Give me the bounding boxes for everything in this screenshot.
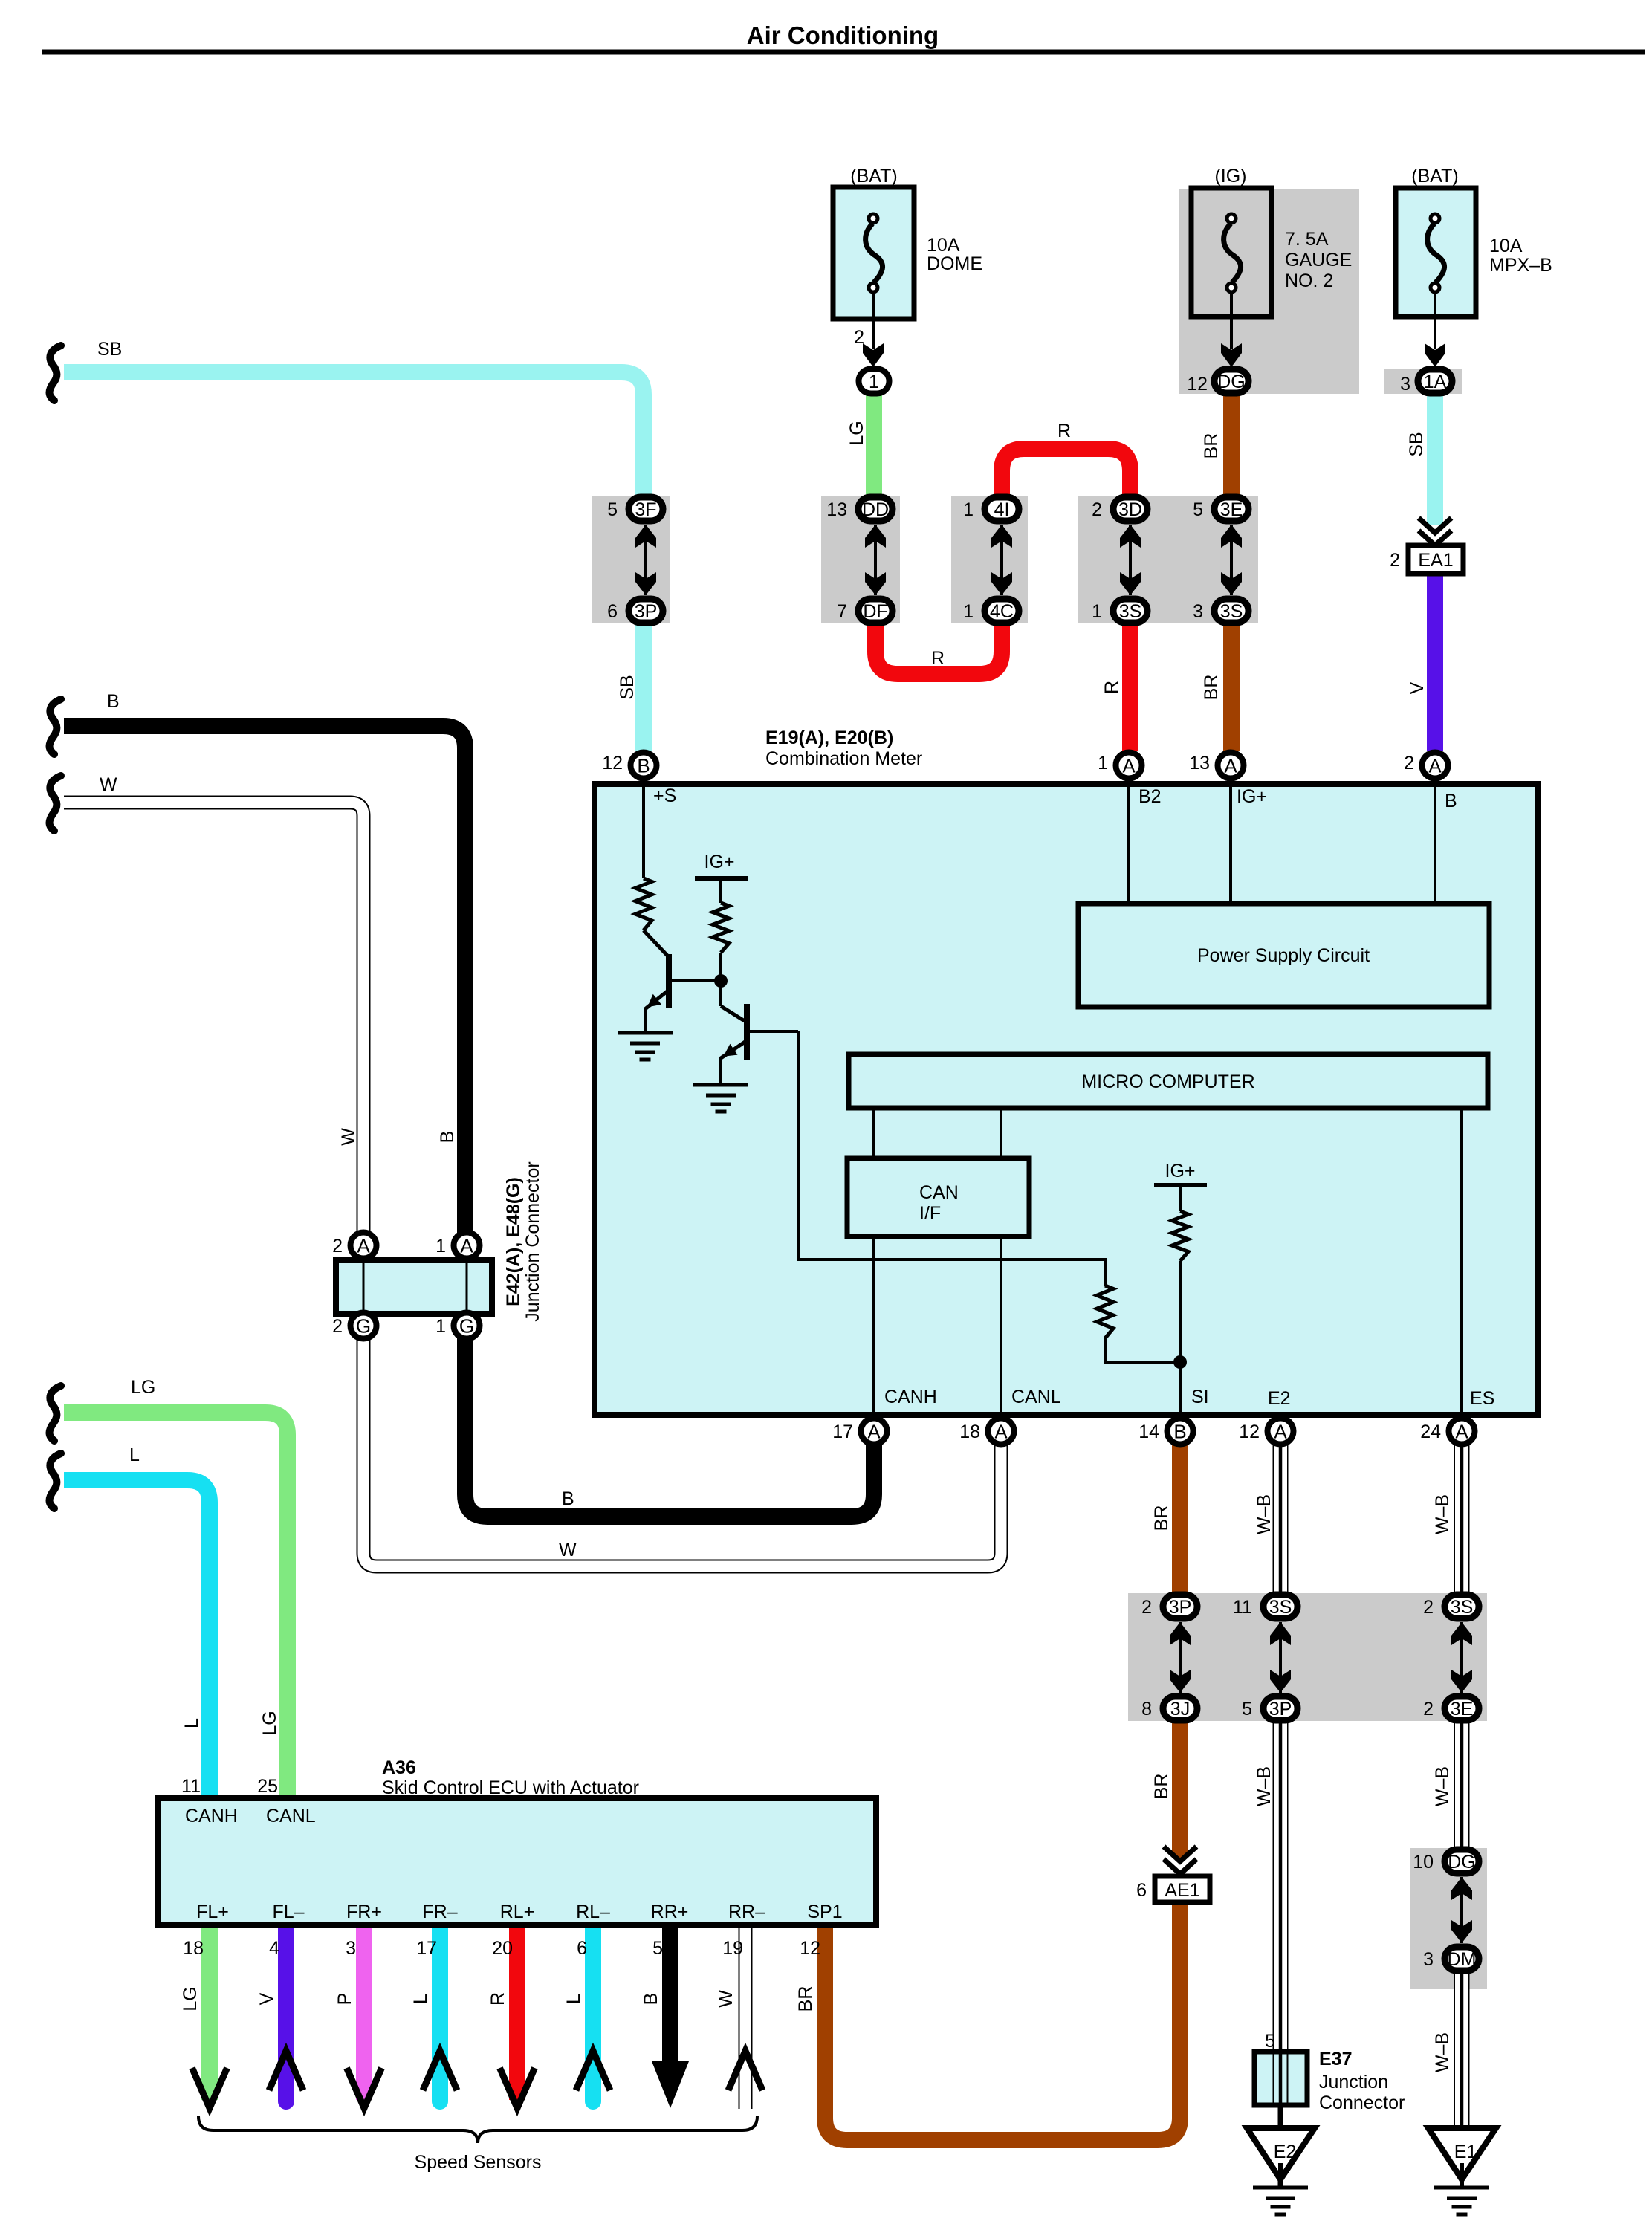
meter pin 2 A bbox=[1404, 753, 1448, 779]
meter pin label SI bbox=[1191, 1387, 1209, 1407]
break symbol L bbox=[50, 1453, 62, 1508]
wire B vertical label at x=902 bbox=[641, 1993, 661, 2006]
svg-text:3: 3 bbox=[346, 1938, 356, 1959]
svg-text:2: 2 bbox=[1404, 753, 1414, 774]
wire BR meter pin 14 SI to connector 3P bbox=[1172, 1442, 1188, 1595]
speed sensors brace bbox=[198, 2116, 757, 2143]
connector 2 3S bbox=[1423, 1595, 1479, 1618]
svg-text:1: 1 bbox=[435, 1236, 446, 1257]
svg-text:12: 12 bbox=[800, 1938, 820, 1959]
fuse GAUGE element bbox=[1224, 214, 1241, 292]
break symbol LG bbox=[50, 1386, 62, 1441]
title Air Conditioning bbox=[747, 22, 939, 49]
transistor Q1 bbox=[645, 954, 721, 1033]
connector arrows 3D-3S bbox=[1120, 525, 1141, 595]
ECU pin label CANL bbox=[266, 1806, 316, 1826]
wire L from left to skid ECU pin 11 CANH bbox=[64, 1480, 210, 1801]
wire L vertical label at x=592 bbox=[410, 1994, 431, 2004]
wire W-B vertical label ES mid bbox=[1432, 1766, 1453, 1806]
svg-text:A: A bbox=[357, 1235, 370, 1257]
svg-text:LG: LG bbox=[846, 421, 867, 445]
ground symbol E1 bbox=[1434, 2188, 1489, 2214]
svg-text:L: L bbox=[181, 1718, 202, 1728]
meter pin 18 A bbox=[959, 1419, 1014, 1445]
svg-text:18: 18 bbox=[183, 1938, 204, 1959]
meter internal IG+ label 1 bbox=[704, 852, 735, 872]
meter pin 17 A bbox=[832, 1419, 887, 1445]
ECU pin 3 number bbox=[346, 1938, 356, 1959]
ECU pin 12 number bbox=[800, 1938, 820, 1959]
meter pin 12 B bbox=[602, 753, 656, 779]
speed sensor up arrow at x=592 bbox=[423, 2051, 457, 2090]
wire W-B meter pin 24 ES to connector 3S bbox=[1454, 1442, 1470, 1595]
wire V connector EA1 to meter pin 2 B bbox=[1427, 574, 1443, 751]
ground point E2 triangle bbox=[1247, 2128, 1315, 2188]
svg-text:A: A bbox=[1455, 1421, 1468, 1443]
svg-text:(BAT): (BAT) bbox=[1411, 166, 1458, 187]
wire SB connector 1A to EA1 bbox=[1427, 395, 1443, 525]
meter pin 12 A bbox=[1239, 1419, 1293, 1445]
wire R label top loop bbox=[1057, 421, 1071, 441]
svg-text:R: R bbox=[1101, 681, 1122, 694]
svg-text:MPX–B: MPX–B bbox=[1489, 255, 1552, 276]
ECU pin label FL– bbox=[272, 1902, 304, 1922]
svg-text:L: L bbox=[563, 1994, 584, 2004]
svg-text:A: A bbox=[994, 1421, 1008, 1443]
wire R4 to pin 14 SI bbox=[1179, 1261, 1182, 1417]
ECU pin 6 number bbox=[577, 1938, 587, 1959]
fuse MPX-B output arrow bbox=[1425, 291, 1445, 367]
wire R vertical label at x=696 bbox=[487, 1992, 508, 2006]
svg-text:5: 5 bbox=[652, 1938, 663, 1959]
svg-text:5: 5 bbox=[607, 499, 618, 520]
fuse 10A MPX-B box bbox=[1396, 188, 1476, 317]
wire L vertical label bbox=[181, 1718, 202, 1728]
ground symbol E2 bbox=[1253, 2188, 1308, 2214]
wire W speed sensor at x=1003 bbox=[739, 1925, 753, 2109]
junction pin 2 G bbox=[332, 1313, 376, 1339]
wire W label left bbox=[100, 774, 117, 795]
fuse GAUGE label IG bbox=[1214, 166, 1246, 187]
svg-text:W: W bbox=[100, 774, 117, 795]
svg-text:BR: BR bbox=[1151, 1774, 1172, 1800]
meter internal +S label bbox=[653, 785, 676, 806]
svg-text:6: 6 bbox=[577, 1938, 587, 1959]
connector 2 3P bbox=[1141, 1595, 1197, 1618]
wire L speed sensor at x=798 bbox=[585, 1925, 601, 2101]
ground point E1 triangle bbox=[1428, 2128, 1496, 2188]
meter pin label CANL bbox=[1011, 1387, 1061, 1407]
wire SB vertical label right bbox=[1406, 432, 1427, 456]
skid control ECU A36 box bbox=[158, 1798, 876, 1925]
wire BR connector 3S to meter pin 13 IG+ bbox=[1223, 621, 1240, 751]
svg-text:13: 13 bbox=[826, 499, 847, 520]
connector arrows 3E-3S bbox=[1221, 525, 1242, 595]
connector arrows 3S-3E bbox=[1451, 1622, 1472, 1693]
svg-text:DG: DG bbox=[1448, 1852, 1476, 1873]
connector AE1 chevrons bbox=[1164, 1847, 1196, 1874]
wire SB connector 3P to meter pin 12 bbox=[635, 621, 652, 751]
svg-text:GAUGE: GAUGE bbox=[1285, 250, 1352, 270]
svg-text:SI: SI bbox=[1191, 1387, 1209, 1407]
svg-text:BR: BR bbox=[1201, 675, 1222, 701]
svg-text:IG+: IG+ bbox=[1237, 786, 1267, 807]
svg-text:E37: E37 bbox=[1319, 2049, 1352, 2069]
connector 3 DM bbox=[1423, 1947, 1479, 1971]
svg-text:DD: DD bbox=[862, 499, 889, 520]
wire BR AE1 to speed-sensor SP1 run bbox=[825, 1902, 1180, 2140]
ECU pin 18 number bbox=[183, 1938, 204, 1959]
svg-text:5: 5 bbox=[1242, 1699, 1252, 1719]
svg-text:3P: 3P bbox=[635, 601, 658, 622]
wire BR connector DG to 3E bbox=[1223, 395, 1240, 499]
svg-text:E2: E2 bbox=[1274, 2142, 1297, 2162]
fuse MPX-B element bbox=[1428, 214, 1445, 292]
svg-text:RL–: RL– bbox=[576, 1902, 610, 1922]
break symbol B bbox=[50, 699, 62, 754]
wire B speed sensor at x=902 bbox=[662, 1925, 678, 2066]
svg-text:SB: SB bbox=[617, 675, 638, 699]
svg-text:18: 18 bbox=[959, 1422, 980, 1442]
svg-text:B: B bbox=[641, 1993, 661, 2006]
connector 13 DD bbox=[826, 497, 893, 521]
svg-text:B: B bbox=[1173, 1421, 1186, 1443]
svg-text:SP1: SP1 bbox=[807, 1902, 842, 1922]
wire LG label left bbox=[131, 1377, 155, 1398]
svg-text:3S: 3S bbox=[1220, 601, 1243, 622]
svg-text:LG: LG bbox=[259, 1711, 280, 1735]
resistor R1 on +S bbox=[635, 878, 652, 930]
connector 8 3J bbox=[1141, 1696, 1197, 1720]
svg-text:1: 1 bbox=[1098, 753, 1108, 774]
svg-text:17: 17 bbox=[416, 1938, 437, 1959]
svg-text:B: B bbox=[107, 691, 120, 712]
svg-text:MICRO COMPUTER: MICRO COMPUTER bbox=[1081, 1072, 1254, 1092]
wire CAN I/F CANL to pin 18 bbox=[1000, 1236, 1002, 1417]
junction connector labels bbox=[503, 1161, 543, 1321]
svg-text:1: 1 bbox=[435, 1316, 446, 1337]
svg-text:E2: E2 bbox=[1268, 1388, 1291, 1409]
speed sensor up arrow at x=798 bbox=[576, 2051, 610, 2090]
connector block background 3P/3J 3S/3P 3S/3E bbox=[1128, 1593, 1487, 1721]
connector 1 4C bbox=[963, 599, 1019, 623]
svg-text:2: 2 bbox=[332, 1316, 343, 1337]
svg-text:W–B: W–B bbox=[1432, 1766, 1453, 1806]
svg-text:(BAT): (BAT) bbox=[850, 166, 897, 187]
svg-text:Speed Sensors: Speed Sensors bbox=[415, 2152, 542, 2173]
svg-text:12: 12 bbox=[602, 753, 623, 774]
wire black inside E1 triangle bbox=[1460, 2128, 1464, 2189]
junction pin 1 A bbox=[435, 1233, 479, 1259]
svg-text:10A: 10A bbox=[1489, 236, 1523, 256]
svg-text:20: 20 bbox=[492, 1938, 513, 1959]
svg-text:3D: 3D bbox=[1118, 499, 1142, 520]
svg-text:8: 8 bbox=[1141, 1699, 1152, 1719]
connector 3 3S bbox=[1193, 599, 1248, 623]
svg-text:12: 12 bbox=[1187, 374, 1208, 395]
transistor Q2 bbox=[721, 1004, 798, 1085]
connector block background DG/DM bbox=[1410, 1848, 1487, 1989]
svg-text:FR–: FR– bbox=[422, 1902, 457, 1922]
svg-text:10A: 10A bbox=[927, 235, 960, 256]
wire B from left to junction connector bbox=[64, 726, 465, 1245]
wire node to transistor Q2 bbox=[721, 981, 745, 1021]
svg-text:Air Conditioning: Air Conditioning bbox=[747, 22, 939, 49]
wire W-B connector DM to ground E1 bbox=[1454, 1971, 1470, 2128]
wire L label left bbox=[129, 1445, 140, 1465]
connector block background 3D/3S and 3E/3S bbox=[1078, 496, 1258, 623]
ECU pin label FR– bbox=[422, 1902, 457, 1922]
svg-text:FL–: FL– bbox=[272, 1902, 304, 1922]
fuse DOME label BAT bbox=[850, 166, 897, 187]
speed sensor up arrow at x=385 bbox=[269, 2051, 303, 2090]
wire CAN I/F CANH to pin 17 bbox=[872, 1236, 875, 1417]
title underline bbox=[42, 50, 1645, 55]
svg-text:G: G bbox=[356, 1315, 371, 1338]
wire R3 to SI node bbox=[1105, 1338, 1180, 1362]
fuse 7.5A GAUGE box bbox=[1191, 188, 1272, 317]
svg-text:AE1: AE1 bbox=[1165, 1880, 1199, 1901]
meter pin 13 A bbox=[1189, 753, 1243, 779]
wire W-B connector 3E to DG bbox=[1454, 1719, 1470, 1850]
svg-text:W–B: W–B bbox=[1254, 1766, 1274, 1806]
connector 12 DG bbox=[1187, 369, 1248, 395]
svg-text:25: 25 bbox=[257, 1776, 278, 1797]
svg-text:R: R bbox=[1057, 421, 1071, 441]
wire black E37 to ground E2 bbox=[1278, 2103, 1283, 2189]
svg-text:I/F: I/F bbox=[919, 1203, 941, 1224]
svg-text:CAN: CAN bbox=[919, 1182, 959, 1203]
meter pin label CANH bbox=[884, 1387, 937, 1407]
fuse block background GAUGE NO.2 bbox=[1179, 189, 1359, 394]
wire V speed sensor at x=385 bbox=[278, 1925, 294, 2101]
svg-text:NO. 2: NO. 2 bbox=[1285, 270, 1333, 291]
connector 5 3E bbox=[1193, 497, 1248, 521]
svg-text:IG+: IG+ bbox=[1165, 1161, 1196, 1181]
svg-text:Power Supply Circuit: Power Supply Circuit bbox=[1197, 945, 1370, 966]
svg-text:B2: B2 bbox=[1138, 786, 1162, 807]
meter pin 24 A bbox=[1420, 1419, 1474, 1445]
wire B vertical label bbox=[437, 1131, 458, 1144]
wire pin 1 to power supply bbox=[1127, 777, 1130, 904]
meter pin label B2 bbox=[1138, 786, 1162, 807]
svg-text:4C: 4C bbox=[990, 601, 1014, 622]
connector 5 3P bbox=[1242, 1696, 1298, 1720]
svg-text:7. 5A: 7. 5A bbox=[1285, 229, 1329, 250]
node SI junction bbox=[1173, 1355, 1187, 1369]
svg-text:IG+: IG+ bbox=[704, 852, 735, 872]
wire micro computer to CAN I/F left bbox=[872, 1108, 875, 1161]
fuse GAUGE rating label bbox=[1285, 229, 1352, 291]
svg-text:LG: LG bbox=[131, 1377, 155, 1398]
svg-text:P: P bbox=[334, 1993, 355, 2006]
wire Q2 to CAN node bbox=[798, 1031, 1105, 1286]
ECU pin label CANH bbox=[185, 1806, 238, 1826]
svg-text:11: 11 bbox=[181, 1776, 201, 1797]
wire SB from top-left to connector 3F bbox=[64, 372, 644, 499]
ECU pin label RL– bbox=[576, 1902, 610, 1922]
svg-text:14: 14 bbox=[1138, 1422, 1159, 1442]
connector arrows 4I-4C bbox=[991, 525, 1012, 595]
power supply circuit box bbox=[1078, 904, 1489, 1007]
wire W from left to junction connector bbox=[64, 803, 363, 1245]
svg-text:2: 2 bbox=[332, 1236, 343, 1257]
wire R speed sensor at x=696 bbox=[509, 1925, 525, 2100]
junction connector E37 box bbox=[1254, 2052, 1307, 2105]
meter pin label IG+ bbox=[1237, 786, 1267, 807]
wire P speed sensor at x=490 bbox=[356, 1925, 372, 2100]
fuse 10A DOME element bbox=[866, 214, 883, 292]
svg-text:3S: 3S bbox=[1451, 1597, 1474, 1618]
connector background 1A bbox=[1384, 369, 1462, 394]
svg-text:1: 1 bbox=[1092, 601, 1102, 622]
meter internal IG+ rail 2 bbox=[1154, 1185, 1207, 1211]
svg-text:R: R bbox=[487, 1992, 508, 2006]
junction pin 1 G bbox=[435, 1313, 479, 1339]
connector 1 4I bbox=[963, 497, 1019, 521]
svg-text:17: 17 bbox=[832, 1422, 853, 1442]
connector 7 DF bbox=[837, 599, 893, 623]
svg-text:3E: 3E bbox=[1451, 1699, 1474, 1719]
connector block background 3F/3P bbox=[592, 496, 670, 623]
ECU pin 11 number bbox=[181, 1776, 201, 1797]
connector 3 1A bbox=[1400, 369, 1452, 395]
wire BR connector 3J to AE1 bbox=[1172, 1719, 1188, 1858]
wire R1 to transistor Q1 bbox=[644, 930, 668, 956]
wire W label bottom bbox=[559, 1540, 577, 1560]
wire R connector 4I to 3D bbox=[1002, 449, 1130, 499]
svg-text:E19(A), E20(B): E19(A), E20(B) bbox=[765, 727, 893, 748]
connector block background DD/DF bbox=[821, 496, 900, 623]
ground under Q1 bbox=[618, 1033, 673, 1060]
wire SB label left bbox=[97, 339, 122, 360]
connector 1 oval bbox=[859, 369, 890, 394]
combination meter label bbox=[765, 727, 922, 769]
meter internal IG+ rail 1 bbox=[695, 878, 748, 903]
connector block background 4I/4C bbox=[951, 496, 1028, 623]
wire W vertical label at x=1003 bbox=[716, 1990, 736, 2008]
wire B label left bbox=[107, 691, 120, 712]
svg-text:G: G bbox=[459, 1315, 474, 1338]
E37 labels bbox=[1319, 2049, 1405, 2113]
wire W-B vertical label ES upper bbox=[1432, 1494, 1453, 1534]
svg-text:W: W bbox=[716, 1990, 736, 2008]
wire W-B meter pin 12 E2 to connector 3S bbox=[1273, 1442, 1289, 1595]
svg-text:W: W bbox=[559, 1540, 577, 1560]
svg-text:11: 11 bbox=[1233, 1597, 1252, 1618]
meter pin 1 A bbox=[1098, 753, 1141, 779]
connector arrows 3S-3P bbox=[1270, 1622, 1291, 1693]
connector 1 3S bbox=[1092, 599, 1147, 623]
svg-text:1: 1 bbox=[869, 372, 879, 392]
connector 2 EA1 box bbox=[1390, 545, 1463, 574]
svg-text:LG: LG bbox=[180, 1986, 201, 2011]
svg-text:Junction: Junction bbox=[1319, 2072, 1388, 2093]
wire LG from left to skid ECU pin 25 CANL bbox=[64, 1413, 288, 1801]
wire R vertical label bbox=[1101, 681, 1122, 694]
svg-text:7: 7 bbox=[837, 601, 847, 622]
svg-text:FR+: FR+ bbox=[346, 1902, 382, 1922]
wire BR vertical label top bbox=[1201, 433, 1222, 459]
wire BR vertical label SI upper bbox=[1151, 1505, 1172, 1531]
svg-text:CANL: CANL bbox=[1011, 1387, 1061, 1407]
speed sensor solid arrow at x=902 bbox=[652, 2061, 689, 2108]
svg-text:3P: 3P bbox=[1169, 1597, 1192, 1618]
svg-text:RR–: RR– bbox=[728, 1902, 765, 1922]
wire pin 13 to power supply bbox=[1229, 777, 1232, 904]
ECU pin 20 number bbox=[492, 1938, 513, 1959]
svg-text:Skid Control ECU with Actuator: Skid Control ECU with Actuator bbox=[382, 1777, 639, 1798]
svg-text:3J: 3J bbox=[1170, 1699, 1190, 1719]
svg-text:W–B: W–B bbox=[1432, 1494, 1453, 1534]
svg-text:V: V bbox=[1407, 681, 1428, 694]
svg-text:CANH: CANH bbox=[185, 1806, 238, 1826]
svg-text:A: A bbox=[1274, 1421, 1287, 1443]
svg-text:B: B bbox=[1445, 791, 1457, 811]
wire micro computer to CAN I/F right bbox=[1000, 1108, 1002, 1161]
svg-text:6: 6 bbox=[607, 601, 618, 622]
resistor R3 near CAN bbox=[1097, 1286, 1113, 1338]
svg-text:FL+: FL+ bbox=[196, 1902, 229, 1922]
wire BR vertical label SI lower bbox=[1151, 1774, 1172, 1800]
svg-text:B: B bbox=[637, 755, 650, 777]
svg-text:DOME: DOME bbox=[927, 253, 982, 274]
svg-text:A: A bbox=[867, 1421, 881, 1443]
wire BR vertical label mid bbox=[1201, 675, 1222, 701]
svg-text:5: 5 bbox=[1193, 499, 1203, 520]
wire LG vertical label at x=282 bbox=[180, 1986, 201, 2011]
ECU pin label RR+ bbox=[651, 1902, 689, 1922]
svg-text:A: A bbox=[1224, 755, 1237, 777]
svg-text:4: 4 bbox=[269, 1938, 279, 1959]
connector 10 DG bbox=[1413, 1850, 1479, 1873]
break symbol W bbox=[50, 776, 62, 831]
svg-text:V: V bbox=[256, 1992, 277, 2005]
svg-text:3E: 3E bbox=[1220, 499, 1243, 520]
speed sensor down arrow at x=282 bbox=[192, 2068, 227, 2108]
speed sensor down arrow at x=696 bbox=[500, 2068, 535, 2108]
svg-text:5: 5 bbox=[1265, 2031, 1275, 2052]
svg-text:ES: ES bbox=[1470, 1388, 1494, 1409]
svg-text:12: 12 bbox=[1239, 1422, 1260, 1442]
ECU pin label RR– bbox=[728, 1902, 765, 1922]
svg-text:2: 2 bbox=[1423, 1597, 1434, 1618]
svg-text:W–B: W–B bbox=[1432, 2032, 1453, 2072]
svg-text:SB: SB bbox=[1406, 432, 1427, 456]
wire W junction connector to meter pin 18 CANL bbox=[363, 1326, 1001, 1566]
meter pin label ES bbox=[1470, 1388, 1494, 1409]
ECU pin label RL+ bbox=[500, 1902, 535, 1922]
connector arrows DD-DF bbox=[865, 525, 886, 595]
fuse DOME output arrow bbox=[863, 291, 884, 367]
svg-text:CANH: CANH bbox=[884, 1387, 937, 1407]
wire P vertical label at x=490 bbox=[334, 1993, 355, 2006]
svg-text:4I: 4I bbox=[994, 499, 1010, 520]
svg-text:DF: DF bbox=[863, 601, 887, 622]
svg-text:RL+: RL+ bbox=[500, 1902, 535, 1922]
wire pin 2 to power supply bbox=[1434, 777, 1436, 904]
svg-text:BR: BR bbox=[1151, 1505, 1172, 1531]
connector arrows 3P-3J bbox=[1170, 1622, 1191, 1693]
wire BR vertical label SP1 bbox=[795, 1986, 816, 2012]
ECU pin label SP1 bbox=[807, 1902, 842, 1922]
svg-text:13: 13 bbox=[1189, 753, 1210, 774]
connector arrows 3F-3P bbox=[635, 525, 656, 595]
fuse DOME pin 2 label bbox=[854, 327, 864, 348]
speed sensor up arrow at x=1003 bbox=[728, 2051, 762, 2090]
wire V vertical label bbox=[1407, 681, 1428, 694]
wire R connector 3S to meter pin 1 B2 bbox=[1122, 621, 1138, 751]
